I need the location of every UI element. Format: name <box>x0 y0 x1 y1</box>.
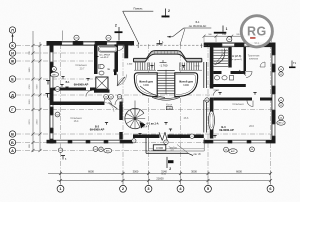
svg-text:6600: 6600 <box>236 169 242 173</box>
svg-text:В-1: В-1 <box>66 81 71 84</box>
svg-text:Жилой дом: Жилой дом <box>139 81 153 84</box>
svg-text:3.000: 3.000 <box>183 85 189 87</box>
svg-text:АИС: АИС <box>106 150 111 153</box>
svg-text:б-1 ап.1-А: б-1 ап.1-А <box>146 123 158 126</box>
svg-text:см. 09-0011-АС: см. 09-0011-АС <box>189 25 207 28</box>
svg-text:ПВ: ПВ <box>107 69 111 71</box>
svg-text:1760: 1760 <box>29 84 31 90</box>
svg-text:АИС2: АИС2 <box>278 122 284 125</box>
svg-text:2: 2 <box>169 167 171 171</box>
svg-text:Б: Б <box>11 141 14 145</box>
svg-text:об.4 ?: об.4 ? <box>143 127 150 129</box>
svg-text:комната: комната <box>249 57 259 60</box>
svg-text:12 (кР-В): 12 (кР-В) <box>232 56 242 58</box>
svg-text:Е: Е <box>11 77 14 81</box>
svg-text:09-0000-АР: 09-0000-АР <box>219 128 234 132</box>
svg-text:Ж: Ж <box>10 59 15 63</box>
svg-text:6600: 6600 <box>88 169 94 173</box>
svg-text:об.4Р-Р: об.4Р-Р <box>101 57 109 59</box>
svg-text:Панель: Панель <box>134 7 144 11</box>
svg-text:АИС: АИС <box>231 150 236 153</box>
svg-text:3000: 3000 <box>191 169 197 173</box>
svg-text:1.100: 1.100 <box>127 64 133 66</box>
svg-text:Спальня: Спальня <box>232 102 244 106</box>
svg-text:В: В <box>11 132 14 136</box>
svg-text:09-0000-АР: 09-0000-АР <box>90 128 105 132</box>
svg-text:3.345: 3.345 <box>194 66 200 68</box>
svg-text:Тамбур: Тамбур <box>169 146 178 149</box>
svg-text:911: 911 <box>254 41 259 45</box>
svg-text:3140: 3140 <box>161 174 167 176</box>
svg-text:RG: RG <box>247 25 267 39</box>
svg-text:см. т.8: см. т.8 <box>194 153 202 156</box>
svg-text:7200: 7200 <box>37 84 39 90</box>
svg-text:Б-4: Б-4 <box>196 21 200 24</box>
svg-text:Холл: Холл <box>166 103 173 107</box>
svg-text:1980: 1980 <box>29 67 31 73</box>
svg-text:2: 2 <box>168 9 170 13</box>
svg-text:3.600: 3.600 <box>156 146 163 150</box>
svg-text:20.7: 20.7 <box>80 68 85 71</box>
svg-text:2430: 2430 <box>37 119 39 125</box>
svg-text:1590: 1590 <box>29 99 31 105</box>
svg-text:2670: 2670 <box>29 119 31 125</box>
svg-text:Жилой дом: Жилой дом <box>179 81 193 84</box>
svg-text:Д: Д <box>11 93 14 97</box>
svg-text:А: А <box>11 149 14 153</box>
svg-text:3.000: 3.000 <box>143 85 149 87</box>
svg-text:09-0000-АР: 09-0000-АР <box>74 83 89 87</box>
svg-text:2: 2 <box>115 23 117 27</box>
svg-text:3000: 3000 <box>133 169 139 173</box>
svg-text:21600: 21600 <box>156 177 164 181</box>
svg-text:Л: Л <box>11 28 14 32</box>
svg-text:16.4: 16.4 <box>74 120 79 123</box>
svg-text:26.6: 26.6 <box>184 117 189 120</box>
svg-text:1: 1 <box>226 27 228 31</box>
svg-text:26.6: 26.6 <box>249 125 254 128</box>
svg-text:АД: АД <box>205 99 209 102</box>
svg-text:-1.760: -1.760 <box>160 63 168 67</box>
svg-text:(н. gravel.): (н. gravel.) <box>231 58 242 61</box>
svg-text:И: И <box>11 51 14 55</box>
svg-text:АИС: АИС <box>52 73 57 76</box>
